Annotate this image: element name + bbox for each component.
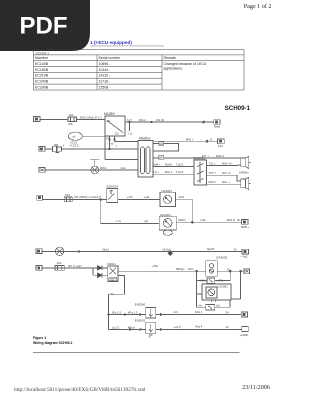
- svg-text:M/q 4: M/q 4: [195, 324, 202, 328]
- svg-text:+x7b: +x7b: [127, 195, 134, 199]
- svg-text:EC180B: EC180B: [35, 68, 49, 72]
- flasher EN3500 box: [146, 307, 156, 318]
- flasher EA3602 box: [206, 261, 218, 277]
- wire SG2001 output to SMB connector: [176, 221, 241, 223]
- wire MA36 to DvM input 2: [153, 173, 194, 175]
- svg-text:EC240B: EC240B: [35, 80, 49, 84]
- sensor B1 circle: [90, 159, 100, 174]
- svg-text:M24 +3: M24 +3: [222, 161, 232, 165]
- svg-text:Mast: Mast: [214, 124, 220, 128]
- wire J5 to connector 9q2: [42, 251, 242, 253]
- connector J1 (battery feed): [34, 117, 41, 122]
- svg-text:(Pq 1.5: (Pq 1.5: [112, 311, 121, 315]
- svg-text:14: 14: [226, 325, 230, 329]
- wire fuse to MA280: [77, 119, 106, 121]
- svg-text:LW (4): LW (4): [156, 118, 164, 122]
- flasher EN3502 box: [146, 322, 156, 335]
- MA36 feedback loop wire: [153, 144, 179, 152]
- MA280 bottom pins: [105, 136, 115, 160]
- wire EA3602 output to connector: [217, 270, 244, 272]
- svg-text:4P/q+: 4P/q+: [128, 326, 136, 330]
- wire J1 to fuse: [40, 119, 68, 121]
- svg-text:+/7W: +/7W: [217, 279, 224, 283]
- svg-text:+q1.5: +q1.5: [174, 325, 182, 329]
- branch wire node A down to SG2001: [101, 200, 160, 224]
- svg-text:4 & +: 4 & +: [153, 170, 160, 174]
- svg-text:yA: yA: [73, 134, 76, 138]
- svg-text:PDF: PDF: [20, 13, 68, 40]
- junction node B: [191, 221, 193, 223]
- wire MA36 top to connector 14w: [153, 140, 218, 142]
- svg-text:LA2001: LA2001: [218, 285, 229, 289]
- svg-text:MA: MA: [69, 122, 73, 126]
- connector "SMB": [242, 219, 249, 224]
- svg-text:+10qB: +10qB: [240, 333, 248, 337]
- svg-text:MA280*: MA280*: [104, 112, 116, 116]
- speaker SP2: [241, 177, 251, 189]
- splice diamond D: [168, 251, 172, 255]
- svg-text:Cx0: Cx0: [110, 279, 115, 282]
- wire vertical right of LA2001: [240, 271, 242, 299]
- wire pin C to MA36: [115, 141, 139, 143]
- svg-text:+ON: +ON: [199, 279, 205, 283]
- svg-text:19: 19: [233, 248, 237, 252]
- splice node S2: [206, 140, 208, 143]
- wire J3 to MA36: [45, 169, 138, 171]
- fuse FU2: [64, 197, 72, 202]
- svg-text:Tq2.5: Tq2.5: [176, 162, 184, 166]
- svg-text:M2+1: M2+1: [165, 170, 173, 174]
- wire Hq3001 output: [175, 198, 192, 200]
- wire J4 to relay E28: [43, 199, 107, 201]
- svg-text:Wiring diagram SCH09-1: Wiring diagram SCH09-1: [33, 341, 73, 345]
- svg-text:Remark: Remark: [164, 56, 177, 60]
- connector J2: [39, 147, 45, 152]
- fuse FU3: [55, 266, 64, 271]
- svg-text:S/RD6x: S/RD6x: [239, 171, 249, 175]
- wire FE5xx output: [118, 270, 206, 272]
- svg-text:SG2001: SG2001: [160, 213, 171, 217]
- wire MA280 output: [125, 121, 214, 123]
- fuse FU1: [68, 117, 77, 122]
- svg-text:3/A3602: 3/A3602: [216, 255, 228, 259]
- svg-text:q1): q1): [144, 219, 148, 223]
- wire LA2001 left stub: [197, 293, 202, 295]
- svg-text:11 7: 11 7: [127, 118, 133, 122]
- outer border: [34, 50, 245, 90]
- svg-text:12508 -: 12508 -: [99, 85, 112, 89]
- svg-text:Ru: Ru: [227, 267, 231, 271]
- svg-text:10A: 10A: [69, 113, 74, 117]
- connector K1: [241, 312, 247, 317]
- svg-text:EC210B: EC210B: [35, 74, 49, 78]
- node D: [196, 270, 198, 272]
- svg-text:M/q 1: M/q 1: [195, 310, 202, 314]
- svg-text:15A: 15A: [65, 193, 70, 197]
- svg-text:SCH09-1: SCH09-1: [225, 105, 251, 112]
- title underline: [90, 45, 164, 47]
- wire J6 to diodes: [42, 267, 93, 269]
- relay E28/X24 box: [107, 189, 118, 203]
- node on MA280 output: [151, 121, 153, 123]
- svg-text:W/x1: W/x1: [103, 248, 110, 252]
- connector "9q2": [242, 249, 249, 254]
- svg-text:M24 R: M24 R: [227, 218, 235, 222]
- svg-text:Page 1 of 2: Page 1 of 2: [244, 3, 272, 10]
- svg-text:+ 9q2: + 9q2: [241, 254, 249, 258]
- lamp W1 oval: [68, 132, 105, 140]
- svg-text:Machine: Machine: [35, 56, 48, 60]
- node F: [240, 270, 242, 272]
- header top line: [34, 54, 245, 56]
- svg-text:(A: (A: [210, 137, 213, 141]
- svg-text:(q 1.5: (q 1.5: [112, 326, 120, 330]
- wire DvM to SP1 lower: [207, 164, 241, 167]
- diode D2: [93, 268, 108, 278]
- svg-text:L0x: L0x: [174, 310, 179, 314]
- svg-text:SMB +: SMB +: [241, 225, 250, 229]
- svg-text:applications.: applications.: [164, 67, 183, 71]
- node A (branch to SG2001): [100, 199, 102, 201]
- svg-text:9q2/5: 9q2/5: [207, 247, 214, 251]
- horn oval under SG2001: [163, 230, 172, 235]
- svg-text:2h: 2h: [237, 218, 241, 222]
- svg-text:Gx1: Gx1: [121, 166, 127, 170]
- svg-text:4 1/2 5: 4 1/2 5: [70, 144, 79, 148]
- node E: [229, 270, 231, 272]
- bottom rule: [33, 352, 240, 354]
- speaker SP1: [241, 156, 251, 168]
- svg-text:+E.9q1: +E.9q1: [162, 247, 171, 251]
- wire row EN3500: [108, 313, 242, 316]
- svg-text:LQ2: LQ2: [200, 218, 206, 222]
- svg-text:4Pq 1.5: 4Pq 1.5: [128, 311, 138, 315]
- svg-text:+JW): +JW): [152, 264, 159, 268]
- header bottom line: [34, 60, 245, 62]
- relay DvM02x box: [194, 160, 207, 185]
- svg-text:2A: 2A: [159, 156, 162, 160]
- svg-text:DvM02x: DvM02x: [194, 156, 206, 160]
- svg-text:u Yq: u Yq: [116, 219, 122, 223]
- svg-text:FE5xx: FE5xx: [107, 262, 116, 266]
- svg-text:M241: M241: [165, 162, 172, 166]
- svg-text:EC140B: EC140B: [35, 62, 49, 66]
- svg-text:W/Cx: W/Cx: [100, 166, 107, 170]
- wire row EN3502: [109, 328, 242, 331]
- wire MA36 to speaker SP1: [153, 157, 241, 159]
- svg-text:T21 +: T21 +: [209, 161, 217, 165]
- svg-text:Changed because of I-ECU: Changed because of I-ECU: [164, 62, 207, 66]
- drop stub from output wire: [129, 121, 131, 131]
- PDF badge: [0, 0, 90, 51]
- svg-text:E28/X24: E28/X24: [107, 185, 119, 189]
- tag label box T2: [159, 155, 164, 159]
- svg-text:+0x: +0x: [198, 304, 203, 308]
- svg-text:M2+ +: M2+ +: [222, 180, 230, 184]
- diode D1: [93, 266, 108, 271]
- connector "Mast": [214, 120, 220, 125]
- svg-text:1 (I-ECU equipped): 1 (I-ECU equipped): [90, 40, 132, 45]
- wire DvM to SP2 lower: [207, 183, 241, 185]
- svg-text:EN3500: EN3500: [135, 303, 146, 307]
- svg-text:M24 4: M24 4: [216, 154, 224, 158]
- bypass 2 with resistor R2: [197, 294, 230, 310]
- column lines: [96, 55, 98, 90]
- splice node S1: [203, 121, 205, 124]
- svg-text:R/L M50(1) 1 Mqx1 P: R/L M50(1) 1 Mqx1 P: [75, 195, 102, 199]
- svg-text:DvM +: DvM +: [153, 162, 162, 166]
- connector J4: [37, 195, 43, 200]
- tag label box T1: [159, 142, 164, 146]
- svg-text:EN3502: EN3502: [135, 319, 146, 323]
- svg-text:M50 1(Fq1) P 1-1: M50 1(Fq1) P 1-1: [80, 116, 102, 120]
- instrument MA36xx box: [138, 141, 153, 178]
- svg-text:MA36xx: MA36xx: [139, 137, 151, 141]
- svg-text:23/11/2006: 23/11/2006: [242, 385, 270, 391]
- node C: [78, 251, 80, 253]
- svg-text:14132 -: 14132 -: [99, 74, 112, 78]
- svg-text:7 1x: 7 1x: [128, 133, 133, 136]
- connector "14w": [218, 139, 225, 144]
- wire MA36 to DvM input 1: [153, 166, 194, 168]
- FE5xx lower output jog down: [109, 276, 125, 330]
- wire LA2001 right stub: [231, 298, 241, 300]
- wire J2 to MA36: [62, 148, 139, 150]
- connector "Ru": [244, 269, 250, 274]
- connector J5: [36, 249, 42, 254]
- svg-text:M41 +: M41 +: [186, 137, 194, 141]
- horn Hq3001 box: [160, 192, 175, 206]
- row lines: [34, 66, 163, 68]
- svg-text:BRQ)x: BRQ)x: [176, 267, 185, 271]
- svg-text:Dv/x: Dv/x: [188, 267, 194, 271]
- connector J3: [39, 168, 45, 173]
- svg-text:34: 34: [226, 311, 230, 315]
- machine table: [34, 50, 245, 90]
- svg-text:T2T 7: T2T 7: [209, 171, 217, 175]
- svg-text:12v: 12v: [115, 131, 120, 135]
- svg-text:Tq1.5: Tq1.5: [176, 170, 184, 174]
- svg-text:EC290B: EC290B: [35, 85, 49, 89]
- wire E28 to horn relay: [118, 198, 160, 200]
- svg-text:Hq3001: Hq3001: [162, 189, 173, 193]
- inline plug P1: [45, 145, 62, 152]
- wire DvM to SP2 upper: [207, 175, 241, 181]
- connector J6: [36, 265, 42, 270]
- svg-text:M24 7: M24 7: [209, 180, 217, 184]
- bypass path with resistor R1: [197, 271, 231, 294]
- relay FE5xx box: [108, 266, 118, 282]
- svg-text:+q11: +q11: [144, 195, 151, 199]
- connector K2: [242, 327, 249, 332]
- wire pin A to MA36: [105, 159, 138, 161]
- svg-text:24v: 24v: [106, 119, 111, 123]
- svg-text:R/L 5 +q27: R/L 5 +q27: [68, 264, 82, 268]
- svg-text:10A: 10A: [57, 261, 62, 265]
- svg-text:11716 -: 11716 -: [99, 80, 111, 84]
- svg-text:Serial number: Serial number: [99, 56, 122, 60]
- svg-text:9A7: 9A7: [159, 142, 164, 146]
- drop wire to SG bus: [191, 199, 193, 222]
- svg-text:R/X +1: R/X +1: [222, 171, 231, 175]
- svg-text:http://localhost:5011/prose/40: http://localhost:5011/prose/40/EXS/GB/VH…: [14, 387, 146, 393]
- svg-text:10696 -: 10696 -: [99, 62, 112, 66]
- svg-text:Figure 1: Figure 1: [33, 336, 46, 340]
- lamp unit LA2001 outer box: [202, 284, 231, 302]
- svg-text:10144 -: 10144 -: [99, 68, 112, 72]
- sensor B2 circle: [55, 247, 63, 255]
- svg-text:x0): x0): [216, 304, 220, 308]
- horn SG2001 box: [159, 216, 176, 230]
- converter MA280 box: [105, 116, 125, 136]
- svg-text:AG2: AG2: [179, 195, 185, 199]
- svg-text:MRC): MRC): [178, 218, 185, 222]
- svg-text:R(1x): R(1x): [139, 118, 146, 122]
- junction dot on J2 wire: [109, 148, 111, 150]
